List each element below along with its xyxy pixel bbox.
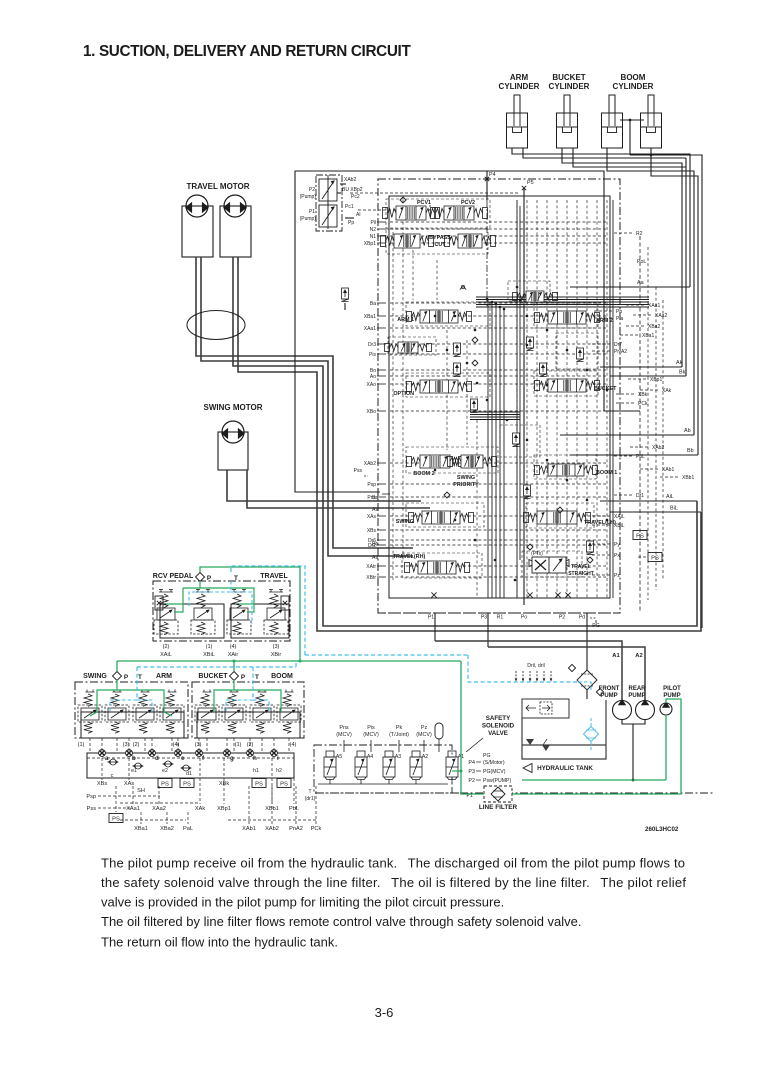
svg-text:PoL: PoL: [637, 259, 646, 265]
bypass cut valve right: [445, 234, 496, 248]
valve dashed enclosures: [386, 199, 490, 228]
svg-text:valve is provided in the pilot: valve is provided in the pilot pump for …: [101, 895, 504, 910]
swivel joint: [187, 311, 245, 340]
relief valve PoL: [513, 291, 558, 302]
travel motor right: [224, 195, 246, 217]
svg-text:The pilot pump receive oil fro: The pilot pump receive oil from the hydr…: [101, 856, 685, 871]
pedal lower sub frame right: [231, 604, 289, 638]
rcv unit arm 1: [133, 690, 157, 734]
R2 rail: [639, 236, 641, 613]
cyan filter drop: [468, 655, 578, 682]
valve TRAVEL LH: [524, 511, 591, 524]
svg-text:Pz: Pz: [614, 573, 620, 579]
port AiL: [600, 500, 697, 502]
pump suction manifold: [622, 720, 645, 725]
svg-text:PS: PS: [651, 556, 659, 562]
svg-text:e2: e2: [162, 768, 168, 774]
swing arm rcv box: [75, 682, 188, 738]
svg-text:AiL: AiL: [666, 494, 674, 500]
svg-text:SWING: SWING: [457, 475, 475, 481]
green pedal distribution: [199, 581, 201, 588]
svg-text:(2): (2): [133, 742, 140, 748]
PS box right 1: [633, 531, 647, 540]
svg-text:TRAVEL: TRAVEL: [260, 573, 288, 580]
svg-text:TRAVEL: TRAVEL: [571, 564, 591, 570]
svg-text:XAs: XAs: [367, 514, 377, 520]
svg-text:XBp1: XBp1: [364, 241, 376, 247]
svg-text:3-6: 3-6: [375, 1005, 394, 1020]
svg-text:XAb2: XAb2: [265, 826, 279, 832]
svg-text:ARM: ARM: [510, 73, 529, 82]
svg-text:REAR: REAR: [628, 686, 646, 692]
bypass cut valve left: [381, 234, 434, 248]
shuttle node b: [126, 750, 133, 757]
check glyph a: [460, 285, 466, 289]
svg-text:Pss: Pss: [87, 806, 97, 812]
svg-text:PS: PS: [112, 817, 120, 823]
right dashed rails: [647, 247, 649, 600]
valve Dr3 small: [385, 342, 432, 353]
svg-text:BU XBp2: BU XBp2: [342, 187, 363, 193]
hydraulic tank check block: [522, 699, 569, 718]
svg-text:g: g: [230, 755, 234, 762]
manifold dashed horizontals: [108, 795, 160, 797]
wire P3 to A2: [488, 647, 645, 700]
svg-text:P3: P3: [468, 769, 475, 775]
svg-text:CYLINDER: CYLINDER: [613, 82, 654, 91]
svg-text:Py: Py: [614, 542, 620, 548]
svg-text:Psp: Psp: [86, 794, 96, 800]
valve TRAVEL STRAIGHT: [529, 557, 569, 573]
svg-text:P3: P3: [481, 615, 487, 621]
svg-text:i: i: [277, 755, 279, 762]
svg-text:(Pump): (Pump): [300, 194, 317, 200]
swing arm lower sub frame: [81, 712, 184, 738]
svg-text:PnA2: PnA2: [289, 826, 303, 832]
check glyph g: [587, 557, 593, 563]
green pedal P riser: [200, 567, 300, 661]
cyan pedal T riser: [231, 566, 305, 655]
row dashed bus: [87, 757, 294, 759]
svg-text:SAFETY: SAFETY: [486, 715, 511, 722]
svg-text:XBa2: XBa2: [160, 826, 174, 832]
green pilot delivery: [512, 699, 681, 794]
bucket boom rcv box: [192, 682, 304, 738]
solenoid drain bus: [318, 783, 448, 785]
manifold dashed drops: [101, 758, 103, 780]
green pilot suction riser: [665, 715, 667, 780]
left port dashed rails: [390, 221, 606, 223]
shuttle node e: [175, 750, 182, 757]
block bottom edge: [378, 612, 620, 614]
svg-text:(3): (3): [273, 644, 280, 650]
svg-text:SWING: SWING: [83, 673, 107, 680]
svg-text:XAk: XAk: [662, 388, 672, 394]
svg-text:P2: P2: [559, 615, 565, 621]
svg-text:PRIORITY: PRIORITY: [453, 482, 479, 488]
tank pilot filter: [584, 727, 599, 742]
svg-text:XBb1: XBb1: [682, 475, 694, 481]
valve SWING PRIORITY: [448, 455, 497, 468]
svg-text:A5: A5: [336, 754, 342, 760]
svg-text:d1: d1: [186, 771, 192, 777]
svg-text:PUMP: PUMP: [600, 693, 617, 699]
svg-text:PbL: PbL: [636, 454, 645, 460]
svg-text:P: P: [124, 674, 129, 681]
svg-text:Pss: Pss: [354, 468, 363, 474]
green swing arm distribution: [97, 680, 117, 712]
PS box 4: [277, 779, 291, 788]
svg-text:260L3HC02: 260L3HC02: [645, 826, 679, 833]
svg-text:Pia: Pia: [616, 316, 623, 322]
svg-text:(dr1): (dr1): [305, 796, 316, 802]
svg-text:Pc1: Pc1: [345, 204, 354, 210]
PS box 5: [109, 814, 123, 823]
svg-text:ARM 2: ARM 2: [596, 318, 613, 324]
valve TRAVEL RH: [405, 561, 470, 574]
svg-text:XAb1: XAb1: [242, 826, 256, 832]
tank breather: [526, 739, 550, 751]
shuttle node d: [149, 750, 156, 757]
valve BUCKET: [535, 379, 600, 392]
svg-text:The oil filtered by line filte: The oil filtered by line filter flows re…: [101, 914, 582, 929]
pedal unit 1: [154, 590, 178, 635]
pedal unit 4: [264, 590, 288, 635]
svg-text:(T/Joint): (T/Joint): [389, 732, 409, 738]
main valve block boundary: [378, 179, 620, 613]
mid bundle horizontals: [470, 411, 520, 413]
shuttle node f: [196, 750, 203, 757]
rcv unit boom 1: [250, 690, 274, 734]
svg-text:PUMP: PUMP: [628, 693, 645, 699]
svg-text:(1): (1): [235, 742, 242, 748]
svg-text:1. SUCTION, DELIVERY AND RETUR: 1. SUCTION, DELIVERY AND RETURN CIRCUIT: [83, 43, 411, 60]
wire swing As: [247, 470, 430, 508]
cyan tank return inner: [578, 682, 591, 690]
accumulator: [435, 723, 443, 739]
wire travel Atr: [201, 257, 413, 556]
rcv unit swing 2: [105, 690, 129, 734]
solenoid valve A3: [383, 751, 395, 779]
svg-text:PILOT: PILOT: [663, 686, 681, 692]
cyan bucket boom T drop: [252, 667, 254, 700]
svg-text:Pc2: Pc2: [351, 194, 360, 200]
svg-text:Pns: Pns: [339, 725, 349, 731]
travel motor left body: [182, 206, 213, 257]
svg-text:(4): (4): [230, 644, 237, 650]
cross bundle horizontals: [476, 296, 649, 298]
bucket cylinder: [557, 95, 578, 148]
rcv pedal P port: [196, 573, 205, 582]
svg-text:b: b: [132, 755, 136, 762]
svg-text:XAiL: XAiL: [160, 652, 172, 658]
cyan T bus lower: [137, 666, 296, 668]
safety valve pointer: [466, 738, 483, 752]
shuttle valve 3: [163, 761, 174, 767]
port Ak: [600, 366, 682, 368]
wire boom rod to Bb: [651, 148, 698, 455]
svg-text:P: P: [241, 674, 246, 681]
svg-text:Pil: Pil: [370, 220, 376, 226]
svg-text:h1: h1: [253, 768, 259, 774]
travel motor right body: [220, 206, 251, 257]
pedal flank box right: [281, 596, 289, 610]
wire P1 to A1: [435, 641, 622, 700]
svg-text:XBs: XBs: [97, 781, 107, 787]
svg-text:XBa1: XBa1: [134, 826, 148, 832]
svg-text:XAb2: XAb2: [364, 461, 376, 467]
green supply bus: [117, 660, 461, 662]
svg-text:Px: Px: [614, 553, 620, 559]
main block inner frame: [389, 196, 610, 598]
travel motor left: [186, 195, 208, 217]
svg-text:Pz: Pz: [421, 725, 428, 731]
svg-text:(MCV): (MCV): [336, 732, 352, 738]
check glyph c: [472, 360, 478, 366]
svg-text:PG(MCV): PG(MCV): [483, 769, 506, 775]
drain dash-dot line: [316, 792, 460, 794]
svg-text:(3): (3): [123, 742, 130, 748]
svg-text:XAa2: XAa2: [152, 806, 166, 812]
svg-text:A3: A3: [395, 754, 401, 760]
svg-text:h: h: [253, 755, 257, 762]
svg-text:SWING MOTOR: SWING MOTOR: [204, 403, 263, 412]
svg-text:P2: P2: [468, 778, 475, 784]
svg-text:R2: R2: [636, 231, 643, 237]
svg-text:SH: SH: [137, 788, 145, 794]
svg-text:Pp: Pp: [348, 220, 354, 226]
rcv unit arm 2: [160, 690, 184, 734]
svg-text:P1: P1: [309, 209, 315, 215]
closed port X marks: [431, 592, 436, 597]
svg-text:Psw(PUMP): Psw(PUMP): [483, 778, 512, 784]
relief valve cluster 3: [471, 399, 478, 413]
port Ab: [560, 434, 694, 436]
pump enclosure frame: [295, 171, 604, 492]
wire boom cyl to Ab: [607, 148, 694, 435]
pump P2 regulator: [319, 175, 337, 205]
svg-text:XBtr: XBtr: [366, 575, 376, 581]
svg-text:e: e: [181, 755, 185, 762]
svg-text:Po: Po: [521, 615, 527, 621]
svg-text:XAb2: XAb2: [344, 177, 356, 183]
svg-text:XAiL: XAiL: [614, 514, 625, 520]
svg-text:BOOM: BOOM: [271, 673, 293, 680]
swing motor: [222, 421, 244, 443]
swing arm rcv P port: [113, 672, 122, 681]
valve PCV1: [383, 206, 440, 220]
tank pilot filter drop: [590, 718, 592, 726]
pilot rail mesh right: [516, 200, 518, 598]
relief valve cluster 2: [454, 363, 461, 377]
shuttle node h: [247, 750, 254, 757]
cyan swing arm T drop: [136, 667, 138, 700]
svg-text:Al: Al: [356, 212, 360, 218]
inner frame right double: [612, 200, 614, 598]
wire boom junction to right: [630, 155, 702, 628]
rcv unit swing 1: [78, 690, 102, 734]
svg-text:Ba: Ba: [370, 301, 376, 307]
green safety riser: [461, 661, 484, 794]
svg-text:PG: PG: [483, 753, 491, 759]
svg-text:c: c: [111, 773, 114, 779]
green bucket boom distribution: [214, 680, 234, 712]
svg-text:the safety solenoid valve thro: the safety solenoid valve through the li…: [101, 875, 686, 890]
svg-text:A4: A4: [367, 754, 373, 760]
wire travel BiL wrap: [238, 257, 701, 631]
svg-text:BOOM 1: BOOM 1: [596, 470, 617, 476]
svg-text:Bb: Bb: [687, 448, 694, 454]
front pump: [613, 700, 632, 720]
valve BOOM 1: [535, 464, 598, 476]
svg-text:XAb1: XAb1: [662, 467, 674, 473]
solenoid feed lines: [343, 740, 345, 752]
relief valve Ba: [342, 288, 349, 302]
pump regulator box: [316, 175, 342, 231]
pump P1 regulator: [319, 201, 337, 229]
relief valve mid: [577, 348, 584, 362]
svg-text:PUMP: PUMP: [663, 693, 680, 699]
svg-text:T: T: [255, 674, 259, 681]
svg-text:Dr2: Dr2: [368, 543, 376, 549]
PS box 3: [252, 779, 266, 788]
valve PCV2: [431, 206, 488, 220]
wire travel Btr: [196, 257, 413, 548]
green safety valve feed: [452, 770, 461, 772]
filter bypass check: [568, 664, 575, 671]
port Bb: [570, 454, 698, 456]
wire boom junction: [629, 120, 631, 155]
svg-text:T: T: [138, 674, 142, 681]
cyan swing arm T distribution: [110, 700, 137, 712]
svg-text:PivA2: PivA2: [614, 349, 627, 355]
svg-text:(PTs): (PTs): [531, 551, 543, 557]
wire Pc1 jog: [358, 205, 430, 210]
shuttle valve 4: [181, 765, 192, 771]
PS box right 2: [648, 553, 662, 562]
svg-text:PS: PS: [255, 782, 263, 788]
svg-text:BUCKET: BUCKET: [198, 673, 228, 680]
svg-text:(4): (4): [173, 742, 180, 748]
svg-text:TRAVEL(LH): TRAVEL(LH): [584, 520, 616, 526]
port BiL: [610, 511, 701, 513]
svg-text:XAk: XAk: [195, 806, 205, 812]
svg-text:(2): (2): [163, 644, 170, 650]
svg-text:As: As: [372, 507, 378, 513]
accumulator stem: [438, 739, 440, 752]
svg-text:XBiL: XBiL: [203, 652, 215, 658]
PS box 2: [180, 779, 194, 788]
svg-text:XBk: XBk: [638, 392, 648, 398]
svg-text:Psp: Psp: [367, 482, 376, 488]
shuttle valve 1: [108, 759, 119, 765]
shuttle node a: [99, 750, 106, 757]
svg-text:Dril, dril: Dril, dril: [527, 663, 545, 669]
svg-text:R1: R1: [497, 615, 504, 621]
svg-text:P5: P5: [527, 180, 534, 186]
svg-text:P4: P4: [489, 172, 496, 178]
svg-text:Ab: Ab: [684, 428, 691, 434]
junction dots: [486, 298, 489, 301]
svg-text:TRAVEL(RH): TRAVEL(RH): [393, 554, 426, 560]
svg-text:Bk: Bk: [679, 370, 686, 376]
bucket boom rcv P port: [230, 672, 239, 681]
svg-text:CYLINDER: CYLINDER: [499, 82, 540, 91]
svg-text:(MCV): (MCV): [363, 732, 379, 738]
svg-text:XAir: XAir: [228, 652, 239, 658]
svg-text:BOOM: BOOM: [621, 73, 646, 82]
svg-text:N1: N1: [370, 234, 377, 240]
line filter: [484, 786, 512, 802]
check glyph d: [444, 492, 450, 498]
svg-text:XAb2: XAb2: [652, 445, 664, 451]
green swing arm P drop: [116, 661, 118, 671]
svg-text:PS: PS: [280, 782, 288, 788]
svg-text:A2: A2: [635, 653, 642, 659]
solenoid valve A5: [324, 751, 336, 779]
svg-text:Pp: Pp: [616, 309, 622, 315]
PS box 1: [158, 779, 172, 788]
svg-text:ARM: ARM: [156, 673, 172, 680]
safety solenoid box: [314, 745, 452, 793]
solenoid valve A4: [355, 751, 367, 779]
wire arm rod to Ba: [523, 148, 686, 158]
svg-text:PCk: PCk: [638, 401, 648, 407]
check glyph b: [472, 337, 478, 343]
svg-text:CYLINDER: CYLINDER: [549, 82, 590, 91]
svg-text:(3): (3): [195, 742, 202, 748]
pedal lower sub frame left: [160, 604, 224, 638]
svg-text:PbL: PbL: [289, 806, 299, 812]
svg-text:XBp1: XBp1: [217, 806, 231, 812]
svg-text:d: d: [155, 755, 159, 762]
svg-text:(S/Motor): (S/Motor): [483, 760, 505, 766]
check glyph h: [400, 197, 406, 203]
svg-text:Pd: Pd: [579, 615, 585, 621]
svg-text:(Pump): (Pump): [300, 216, 317, 222]
svg-text:(1): (1): [78, 742, 85, 748]
relief valve bucket side: [540, 363, 547, 377]
wire bucket rod to Bk: [573, 148, 686, 376]
green tank suction to pilot pump: [522, 779, 666, 781]
cyan return bus: [305, 654, 468, 656]
pilot rail mesh left: [392, 232, 394, 580]
wire boom rod link: [620, 119, 644, 121]
svg-text:Pns: Pns: [367, 495, 376, 501]
relief valve boom1 side: [513, 433, 520, 447]
svg-text:XAo: XAo: [367, 382, 377, 388]
svg-text:XAa2: XAa2: [655, 313, 667, 319]
cyan pedal T distribution: [189, 581, 231, 608]
svg-text:T: T: [234, 575, 238, 582]
valve ARM 1: [407, 310, 472, 323]
rcv unit boom 2: [277, 690, 301, 734]
pilot pump: [660, 703, 672, 716]
arm cylinder: [507, 95, 528, 148]
relief valve arm2 side: [527, 337, 534, 351]
riser dashes from rcv to manifold: [89, 738, 91, 753]
svg-text:P: P: [207, 575, 212, 582]
svg-text:BUCKET: BUCKET: [594, 386, 617, 392]
wire travel AiL wrap: [233, 257, 697, 626]
svg-text:HYDRAULIC TANK: HYDRAULIC TANK: [537, 765, 593, 772]
svg-text:SOLENOID: SOLENOID: [482, 723, 515, 730]
swing motor body: [218, 432, 248, 470]
shuttle manifold frame: [87, 753, 294, 778]
svg-text:XAa1: XAa1: [364, 326, 376, 332]
svg-text:PCV1: PCV1: [417, 200, 431, 206]
svg-text:PS: PS: [183, 782, 191, 788]
